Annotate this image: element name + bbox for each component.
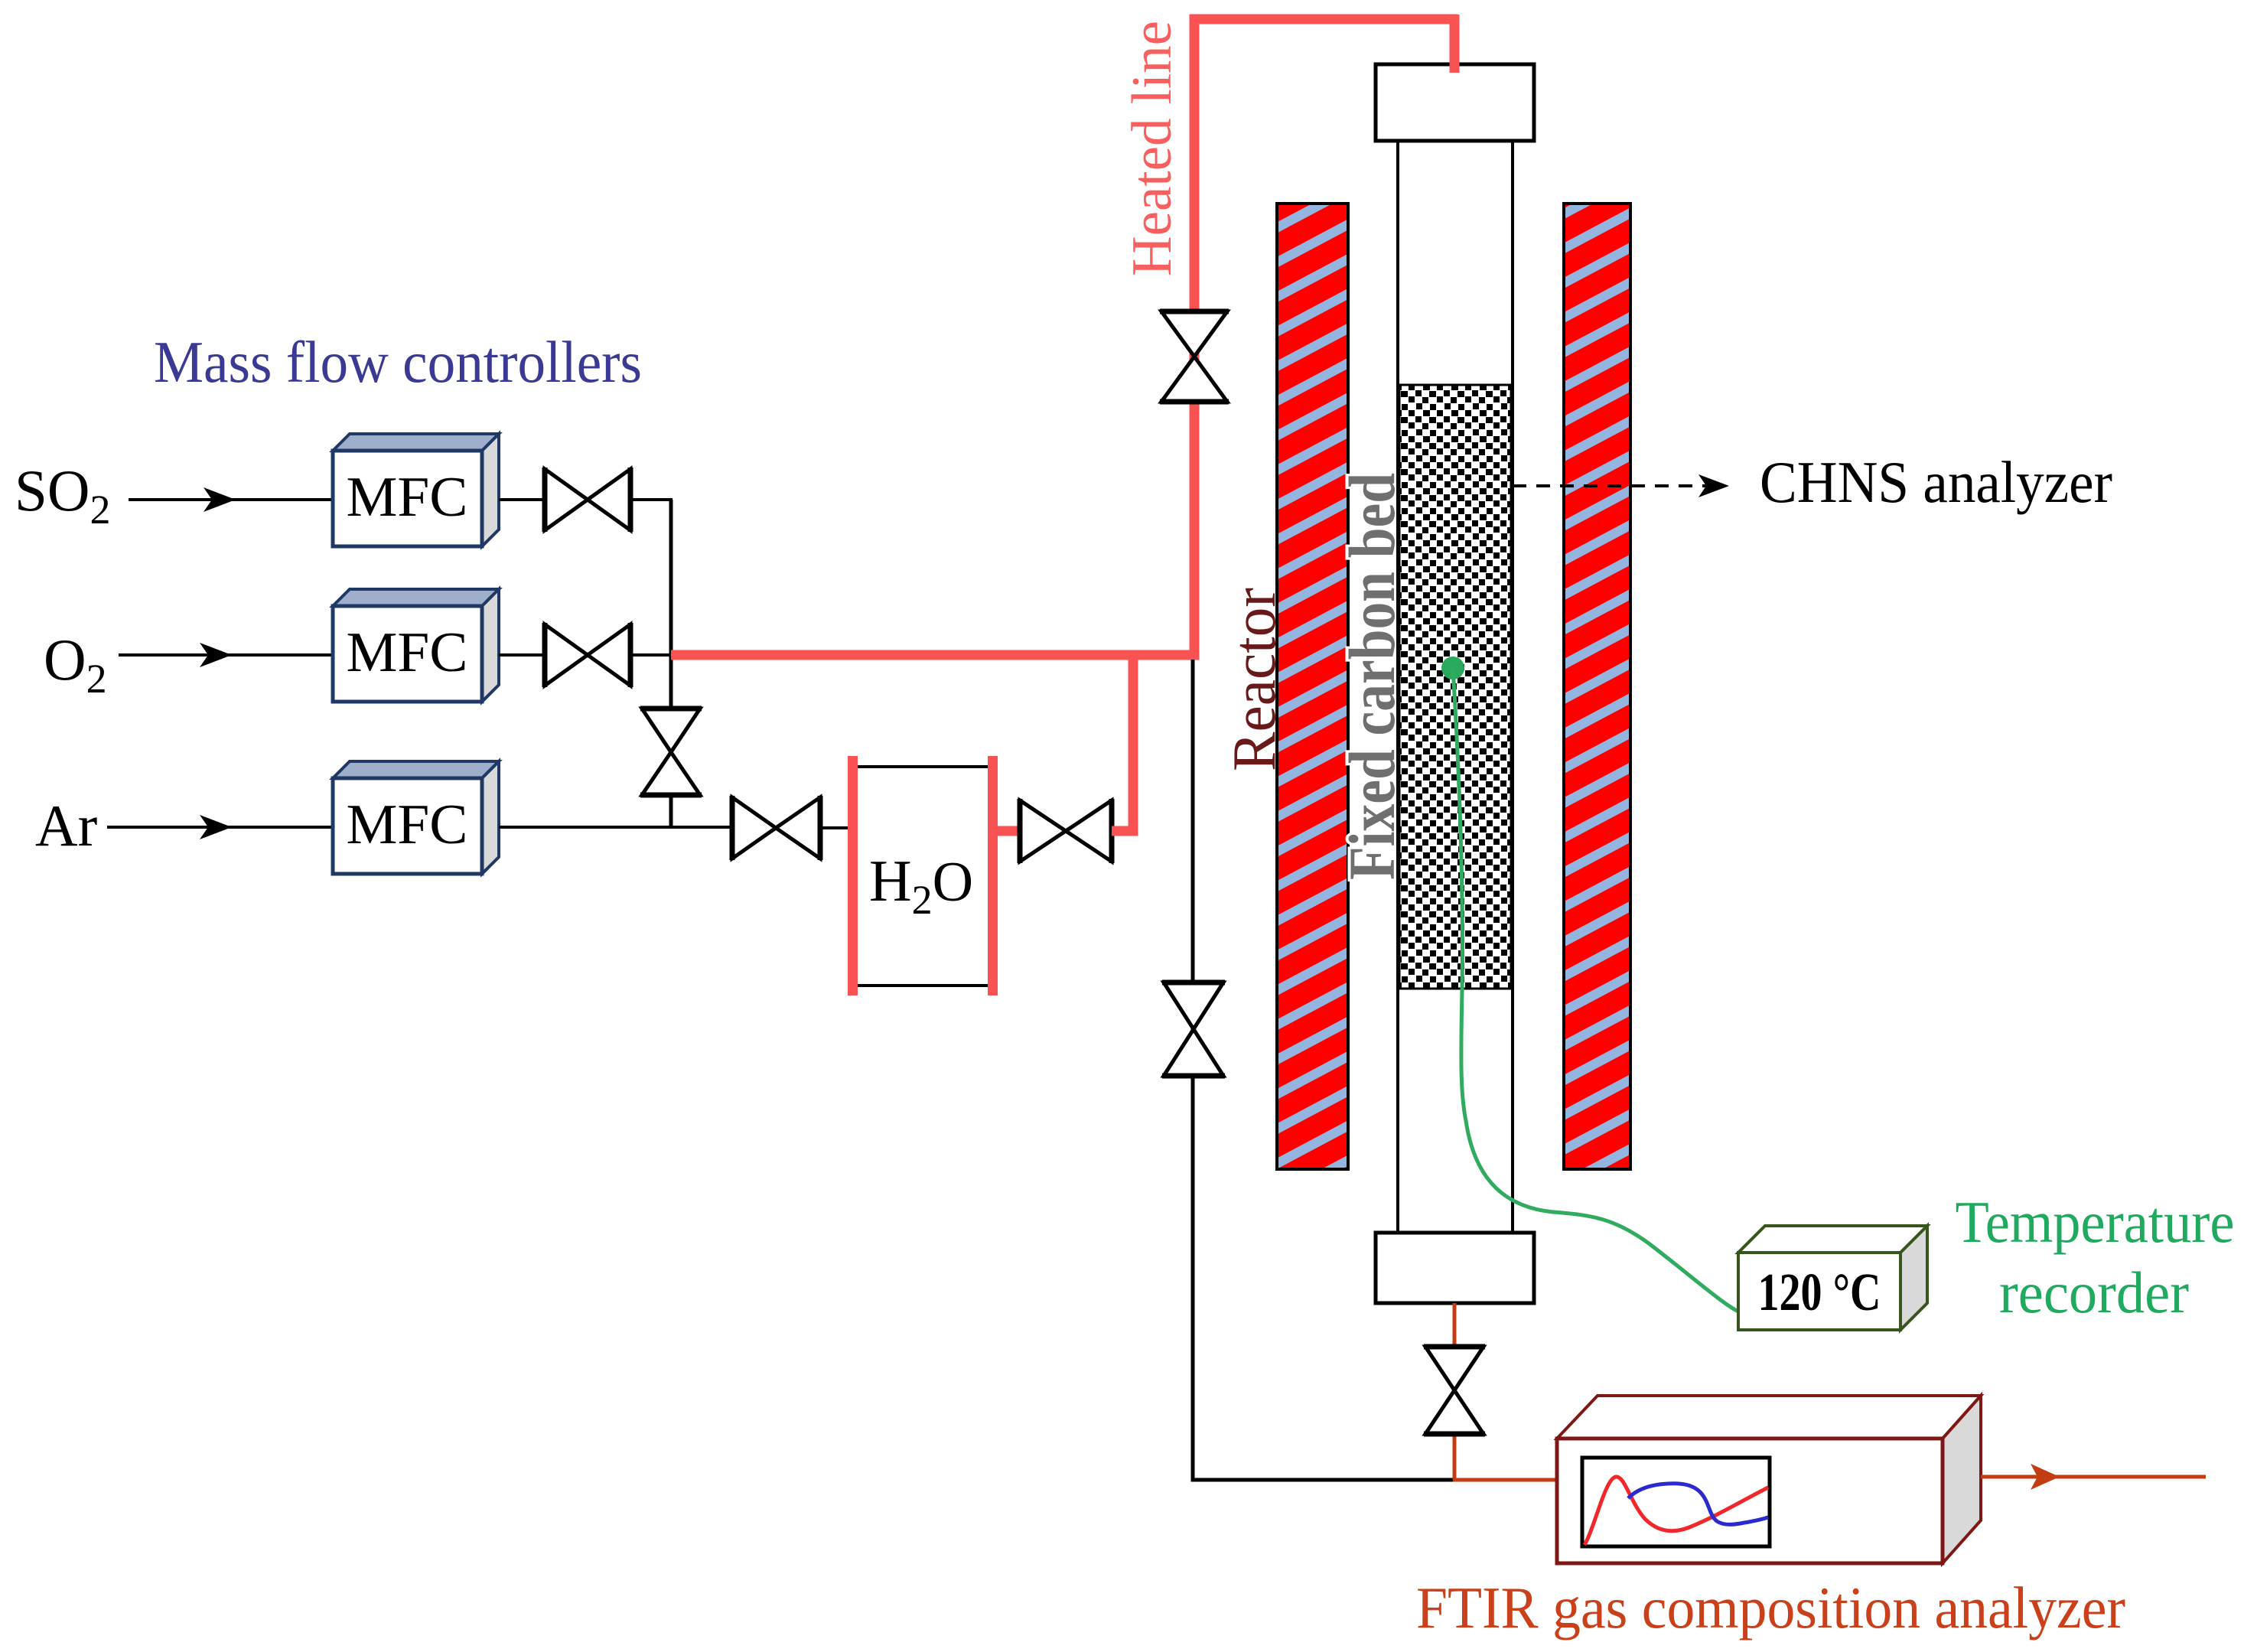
svg-text:MFC: MFC <box>347 793 468 856</box>
orange line to FTIR <box>1453 1478 1558 1482</box>
arrowhead Ar inlet <box>200 815 232 839</box>
svg-text:FTIR gas composition analyzer: FTIR gas composition analyzer <box>1416 1575 2125 1641</box>
dashed arrow to CHNS <box>1513 484 1710 487</box>
heater bar right <box>1564 204 1630 1169</box>
svg-text:CHNS analyzer: CHNS analyzer <box>1760 449 2112 515</box>
wire SO2 inlet <box>129 498 333 501</box>
bubbler bottom rail <box>852 984 992 987</box>
valve V4 (Ar to bubbler) <box>732 796 820 860</box>
thermocouple green dot <box>1441 657 1464 679</box>
wire O2 inlet <box>119 653 333 657</box>
MFC box SO2 <box>333 434 499 546</box>
wire V1 to junction column <box>630 498 673 501</box>
screen blue trace <box>1628 1484 1768 1525</box>
red heated line drop into cap <box>1450 15 1460 73</box>
FTIR screen <box>1582 1458 1770 1546</box>
MFC box O2 <box>333 589 499 702</box>
wire V2 to junction <box>630 653 673 657</box>
orange line reactor out <box>1453 1303 1457 1480</box>
svg-text:MFC: MFC <box>347 621 468 684</box>
reactor top cap <box>1376 64 1534 141</box>
valve V7 (bypass) <box>1162 982 1225 1076</box>
svg-text:Mass flow controllers: Mass flow controllers <box>154 329 642 395</box>
wire V3 to Ar line <box>669 795 673 829</box>
reactor bottom cap <box>1376 1233 1534 1303</box>
H2O bubbler <box>848 756 998 995</box>
bubbler left red bar <box>848 756 858 995</box>
bypass wire down <box>1193 660 1457 1480</box>
wire MFC SO2 out <box>499 498 545 501</box>
wire Ar inlet <box>107 826 333 829</box>
temperature recorder box 120C <box>1738 1226 1927 1330</box>
svg-text:recorder: recorder <box>1999 1259 2189 1325</box>
FTIR out arrow <box>1981 1475 2206 1479</box>
bubbler top rail <box>852 765 992 768</box>
svg-text:MFC: MFC <box>347 466 468 529</box>
valve V5 (bubbler out) <box>1020 799 1112 863</box>
wire Ar out long <box>499 826 732 829</box>
bubbler right red bar <box>988 756 998 995</box>
svg-text:Temperature: Temperature <box>1956 1189 2235 1255</box>
MFC box Ar <box>333 761 499 874</box>
wire V4 to bubbler <box>820 826 849 829</box>
wire MFC O2 out <box>499 653 545 657</box>
FTIR analyzer box <box>1557 1396 1981 1563</box>
arrowhead CHNS <box>1698 474 1729 497</box>
svg-text:Ar: Ar <box>35 793 97 859</box>
carbon bed <box>1399 385 1511 989</box>
valve V2 (O2) <box>545 623 630 687</box>
valve V1 (SO2) <box>545 468 630 532</box>
red line V5 up to heated line <box>1112 650 1133 831</box>
red line bubbler out stub <box>998 826 1020 836</box>
valve V3 (vertical, junction column) <box>640 709 702 795</box>
valve V8 (FTIR inlet) <box>1424 1347 1485 1434</box>
screen red trace <box>1584 1477 1768 1545</box>
arrowhead O2 inlet <box>200 643 232 667</box>
red heated line main <box>671 19 1457 655</box>
valve V6 (heated line) <box>1160 311 1229 402</box>
arrowhead SO2 inlet <box>204 487 236 512</box>
junction column wire <box>669 500 673 710</box>
reactor tube <box>1398 141 1513 1233</box>
heater bar left <box>1277 204 1348 1169</box>
svg-text:120 °C: 120 °C <box>1758 1263 1881 1322</box>
thermocouple green cable <box>1453 668 1738 1311</box>
svg-text:Heated line: Heated line <box>1121 21 1184 276</box>
